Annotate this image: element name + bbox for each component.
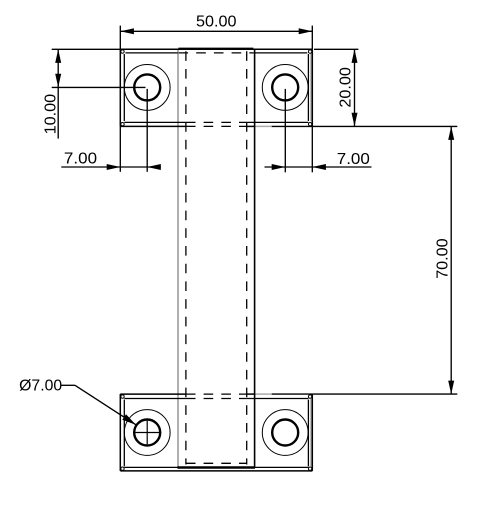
dimension 7.00 left [61,89,161,172]
top flange bottom tangent hidden part (dashed) [186,121,247,123]
svg-text:7.00: 7.00 [337,151,370,168]
top flange outline [120,49,312,126]
gray tangent segment at bottom flange top edge [255,393,272,395]
top flange bottom edge hidden part (dashed) [186,125,247,127]
hole top-left: boss circle [124,65,170,111]
svg-text:10.00: 10.00 [43,94,60,135]
svg-text:70.00: 70.00 [434,238,451,279]
column hidden edge right (dashed) [246,51,248,464]
top flange tangent lines [124,53,308,123]
hole top-left: bore circle [134,74,160,100]
bottom flange hidden row above column bottom (dashed) [186,462,247,464]
hole bottom-right: boss circle [262,410,308,456]
leader callout diameter 7.00 [62,385,136,424]
bottom flange corner fillet arcs [121,395,312,471]
bottom flange top tangent hidden part (dashed) [186,398,247,400]
hole bottom-left: bore circle [134,420,160,446]
hole top-right: bore circle [272,74,298,100]
dimension 20.00 [314,49,358,126]
dimension 10.00 [52,49,146,138]
svg-text:50.00: 50.00 [196,14,237,31]
dimension 50.00 [120,26,312,50]
hole bottom-left: center mark cross [135,421,159,445]
bottom flange tangent lines [124,399,308,468]
top flange corner fillet arcs [121,50,312,126]
column hidden edge left (dashed) [185,51,187,464]
column bottom edge [178,466,256,468]
column top edge [178,48,253,50]
hole bottom-right: bore circle [272,420,298,446]
column right silhouette (visible edge) [254,49,256,468]
dimension 7.00 right [265,89,372,172]
column left silhouette (tangent edge, gray) [177,49,179,468]
bottom flange right gray tangent line [310,399,312,466]
hole bottom-left: boss circle [124,410,170,456]
svg-text:20.00: 20.00 [337,67,354,108]
svg-text:Ø7.00: Ø7.00 [19,377,62,394]
hole top-right: boss circle [262,65,308,111]
bottom flange outline [120,394,312,471]
top flange right gray tangent line [310,54,312,122]
svg-text:7.00: 7.00 [64,150,97,167]
dimension 70.00 [272,126,458,394]
gray tangent segment at top flange bottom edge [255,125,272,127]
top flange top tangent hidden part (dashed) [179,52,254,54]
bottom flange top edge hidden part (dashed) [186,393,247,395]
